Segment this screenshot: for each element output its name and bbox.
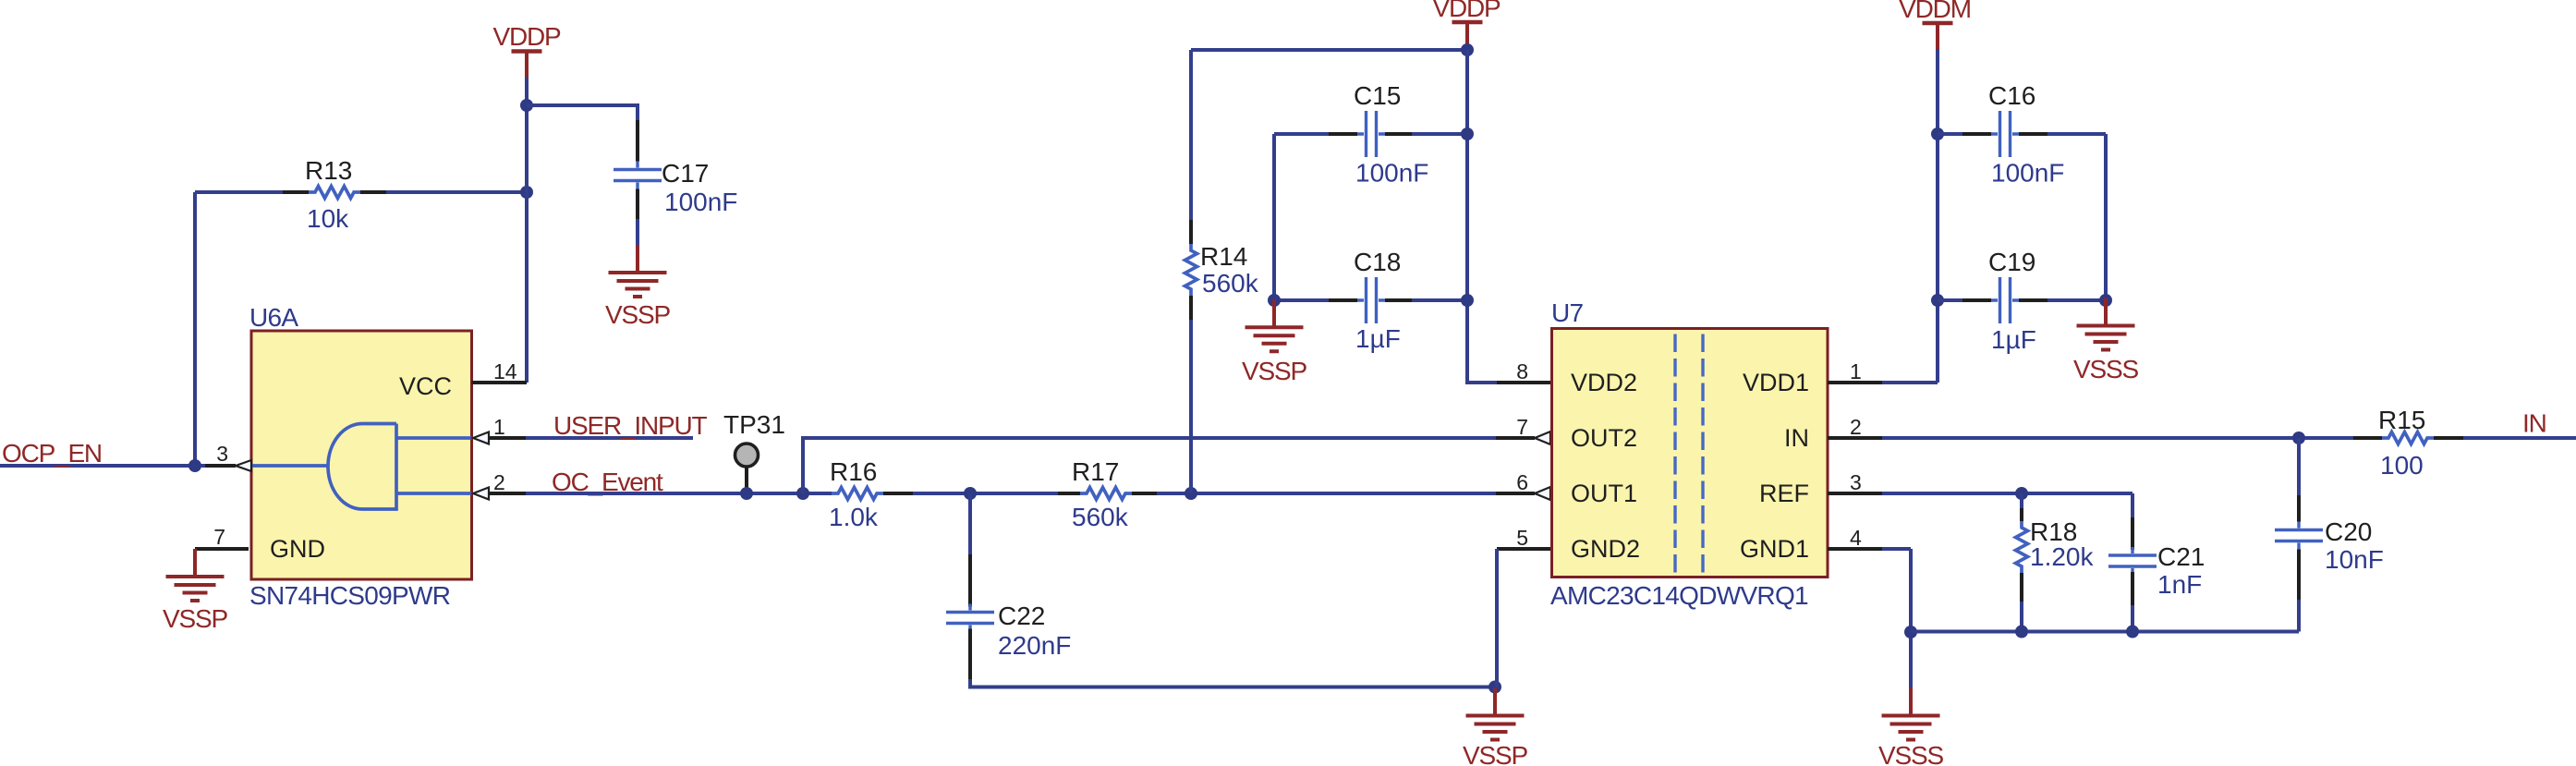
svg-text:TP31: TP31: [723, 410, 785, 439]
wire GND1 rail: [1882, 549, 1911, 688]
junction C16 left: [1931, 128, 1944, 140]
resistor R14: [1185, 244, 1197, 296]
svg-text:560k: 560k: [1072, 503, 1129, 531]
wire C22 to GND2 rail: [970, 679, 1495, 687]
svg-text:100: 100: [2380, 451, 2424, 480]
resistor R15 lead left: [2353, 436, 2382, 440]
pin 2: [473, 470, 526, 500]
svg-text:C17: C17: [662, 159, 709, 188]
junction OUT2 branch: [796, 487, 809, 500]
svg-text:14: 14: [493, 359, 517, 383]
svg-text:OUT2: OUT2: [1571, 424, 1637, 452]
capacitor C16 row: [1938, 132, 1962, 136]
capacitor C21 lead top: [2131, 517, 2134, 550]
resistor R15: [2382, 432, 2434, 444]
wire C17 to ground: [636, 219, 639, 246]
junction R14 bottom: [1185, 487, 1197, 500]
wire OUT2 branch vertical: [803, 438, 1496, 493]
capacitor C21 lead bottom: [2131, 572, 2134, 605]
wire R16 to C22 junction: [913, 492, 1058, 495]
svg-text:GND: GND: [270, 535, 325, 563]
wire OCP_EN to R13 vertical: [193, 192, 197, 466]
svg-text:10nF: 10nF: [2325, 545, 2384, 574]
pin 6 OUT1 stub: [1496, 492, 1535, 495]
ground VSSS (bottom): [1878, 688, 1943, 766]
resistor R15 lead right: [2434, 436, 2463, 440]
ground VSSP (under C17): [605, 245, 670, 329]
svg-text:C18: C18: [1354, 248, 1401, 276]
isolation barrier dashed lines: [1675, 334, 1703, 577]
junction TP31: [740, 487, 753, 500]
resistor R1 lead left (pin): [283, 190, 309, 194]
op-amp U6A AND gate: [251, 424, 472, 510]
capacitor C18: [1357, 277, 1385, 323]
ground VSSP (bottom): [1463, 688, 1527, 766]
capacitor C15: [1357, 111, 1385, 157]
svg-text:100nF: 100nF: [1991, 159, 2064, 188]
svg-text:C22: C22: [998, 602, 1045, 630]
svg-text:1: 1: [493, 415, 505, 439]
junction C19 right / ground: [2099, 294, 2112, 307]
svg-text:VSSS: VSSS: [2073, 355, 2138, 383]
capacitor C16: [1991, 111, 2019, 157]
svg-text:1µF: 1µF: [1355, 324, 1401, 353]
svg-text:R16: R16: [830, 457, 877, 486]
svg-text:USER_INPUT: USER_INPUT: [553, 411, 707, 440]
ground VSSP (C18): [1242, 299, 1306, 385]
capacitor C22 branch wire: [968, 493, 972, 554]
svg-text:3: 3: [216, 442, 228, 466]
pin 7 GND: [195, 525, 325, 563]
svg-text:AMC23C14QDWVRQ1: AMC23C14QDWVRQ1: [1550, 581, 1808, 610]
resistor R14 lead top: [1189, 220, 1193, 244]
svg-text:100nF: 100nF: [1355, 159, 1428, 188]
svg-text:REF: REF: [1759, 480, 1809, 507]
U7 pin numbers right: [1850, 359, 1862, 550]
capacitor C16 lead right: [2019, 132, 2047, 136]
junction VDDP/C17 branch: [520, 99, 533, 112]
junction R18 top: [2015, 487, 2028, 500]
wire VDDM rail: [1936, 50, 1939, 383]
wire R14 top to VDDP: [1191, 48, 1467, 52]
svg-text:GND1: GND1: [1740, 535, 1809, 563]
test point TP31: [723, 410, 785, 493]
svg-text:7: 7: [1516, 415, 1528, 439]
resistor R17 lead right: [1132, 492, 1157, 495]
svg-text:OCP_EN: OCP_EN: [2, 439, 102, 468]
pin 8 VDD2 stub: [1497, 381, 1550, 384]
svg-text:220nF: 220nF: [998, 631, 1071, 660]
svg-text:VDDM: VDDM: [1899, 0, 1971, 23]
capacitor C22 lead top: [968, 554, 972, 607]
resistor R14 rail top: [1189, 50, 1193, 220]
junction C15 right: [1461, 128, 1474, 140]
capacitor C22 lead bottom: [968, 629, 972, 682]
svg-text:2: 2: [1850, 415, 1862, 439]
svg-text:100nF: 100nF: [664, 188, 737, 216]
svg-text:SN74HCS09PWR: SN74HCS09PWR: [249, 581, 450, 610]
svg-text:1: 1: [1850, 359, 1862, 383]
capacitor C20: [2275, 522, 2323, 550]
pin 1: [473, 415, 526, 444]
capacitor C17: [614, 162, 662, 189]
wire C15/C18 left rail: [1272, 134, 1276, 300]
wire VDD1 to VDDM rail: [1882, 381, 1938, 384]
junction C20 top: [2292, 432, 2305, 444]
junction C18 left / ground: [1268, 294, 1281, 307]
capacitor C19 row: [1938, 298, 1962, 302]
svg-text:VDD2: VDD2: [1571, 369, 1637, 396]
wire R17 to OUT1: [1157, 492, 1496, 495]
pin 1 VDD1 stub: [1828, 381, 1882, 384]
wire IN net: [1882, 436, 2353, 440]
svg-text:U7: U7: [1551, 298, 1584, 327]
junction OCP_EN/R13: [188, 459, 201, 472]
wire bottom rail: [1911, 630, 2299, 634]
capacitor C17 lead top (pin): [636, 120, 639, 162]
U7 pin labels right: [1740, 369, 1809, 563]
capacitor C21: [2108, 547, 2157, 575]
pin 14 VCC: [399, 359, 527, 400]
capacitor C22: [946, 604, 994, 632]
svg-text:IN: IN: [1784, 424, 1809, 452]
svg-text:R17: R17: [1072, 457, 1119, 486]
resistor R17 lead left: [1058, 492, 1080, 495]
capacitor C20 lead top: [2297, 495, 2301, 522]
capacitor C18 lead right: [1385, 298, 1412, 302]
capacitor C15 lead right: [1385, 132, 1412, 136]
svg-text:VSSS: VSSS: [1878, 741, 1943, 766]
resistor R14 lead bottom: [1189, 296, 1193, 320]
resistor R18 lead top: [2020, 507, 2023, 521]
svg-text:VCC: VCC: [399, 372, 452, 400]
resistor R16 lead right: [883, 492, 913, 495]
wire R13 right to VDDP rail: [386, 190, 527, 194]
junction C21 bottom: [2126, 626, 2139, 638]
svg-text:6: 6: [1516, 470, 1528, 494]
resistor R13: [309, 187, 360, 199]
pin 3: [205, 442, 251, 471]
svg-text:1µF: 1µF: [1991, 325, 2036, 354]
svg-text:VDDP: VDDP: [493, 22, 562, 51]
resistor R18: [2016, 521, 2028, 573]
resistor R13 lead right (pin): [360, 190, 386, 194]
junction C22: [964, 487, 977, 500]
pin 3 REF stub: [1828, 492, 1882, 495]
pin 7 OUT2 stub: [1496, 436, 1535, 440]
svg-text:VSSP: VSSP: [605, 300, 670, 329]
wire R15 to IN: [2463, 436, 2576, 440]
svg-text:VDDP: VDDP: [1433, 0, 1501, 22]
wire C21 bottom: [2131, 605, 2134, 632]
svg-text:IN: IN: [2522, 409, 2546, 438]
IC U6A box: [251, 331, 472, 579]
svg-text:560k: 560k: [1202, 269, 1259, 298]
junction GND2 ground: [1488, 681, 1501, 694]
pin 4 GND1 stub: [1828, 547, 1882, 551]
svg-text:C21: C21: [2157, 542, 2205, 571]
junction R18 bottom: [2015, 626, 2028, 638]
svg-text:1nF: 1nF: [2157, 570, 2202, 599]
svg-text:5: 5: [1516, 526, 1528, 550]
svg-text:VSSP: VSSP: [163, 604, 227, 633]
svg-text:7: 7: [213, 525, 225, 549]
wire C20 rail: [2297, 438, 2301, 632]
U7 pin labels left: [1571, 369, 1640, 563]
wire R14 bottom: [1189, 320, 1193, 493]
capacitor C19 lead right: [2019, 298, 2047, 302]
wire R18 top: [2020, 493, 2023, 508]
wire OCP_EN horizontal: [0, 464, 205, 468]
IC U7 box: [1552, 329, 1829, 578]
svg-text:1.0k: 1.0k: [829, 503, 879, 531]
ground VSSS (C19): [2073, 298, 2138, 384]
wire USER_INPUT: [489, 436, 526, 440]
resistor R18 lead bottom: [2020, 573, 2023, 602]
power VDDP (left): [493, 22, 562, 78]
svg-text:GND2: GND2: [1571, 535, 1640, 563]
svg-text:3: 3: [1850, 470, 1862, 494]
svg-text:1.20k: 1.20k: [2030, 542, 2094, 571]
pin 2 IN stub: [1828, 436, 1882, 440]
svg-text:OUT1: OUT1: [1571, 480, 1637, 507]
wire C17 branch horizontal: [527, 103, 638, 120]
svg-text:U6A: U6A: [249, 303, 298, 332]
svg-text:VSSP: VSSP: [1463, 741, 1527, 766]
svg-text:VDD1: VDD1: [1743, 369, 1809, 396]
junction C18 right: [1461, 294, 1474, 307]
wire REF net: [1882, 493, 2132, 517]
junction C19 left: [1931, 294, 1944, 307]
capacitor C18 row: [1274, 298, 1329, 302]
U7 pin numbers left: [1516, 359, 1528, 550]
svg-text:4: 4: [1850, 526, 1862, 550]
svg-text:R13: R13: [305, 156, 352, 185]
junction R13/VDDP rail: [520, 186, 533, 199]
power VDDP (middle): [1433, 0, 1501, 50]
wire GND2 rail: [1495, 549, 1499, 687]
svg-text:C20: C20: [2325, 517, 2372, 546]
resistor R17: [1080, 488, 1132, 500]
svg-text:8: 8: [1516, 359, 1528, 383]
junction GND1 rail: [1904, 626, 1917, 638]
svg-text:C16: C16: [1988, 81, 2035, 110]
wire C16/C19 right rail: [2104, 134, 2108, 300]
svg-text:10k: 10k: [307, 204, 349, 233]
wire R18 bottom: [2020, 602, 2023, 632]
svg-text:2: 2: [493, 470, 505, 494]
power VDDM: [1899, 0, 1971, 50]
wire VDDP mid rail: [1467, 50, 1497, 383]
capacitor C17 lead bottom (pin): [636, 189, 639, 220]
svg-text:C15: C15: [1354, 81, 1401, 110]
wire OC_Event: [489, 492, 526, 495]
pin 5 GND2 stub: [1497, 547, 1550, 551]
svg-text:C19: C19: [1988, 248, 2035, 276]
svg-text:VSSP: VSSP: [1242, 357, 1306, 385]
capacitor C20 lead bottom: [2297, 550, 2301, 601]
svg-text:R15: R15: [2378, 406, 2425, 434]
wire R13 left: [195, 190, 283, 194]
resistor R16: [832, 488, 883, 500]
capacitor C15 row: [1274, 132, 1329, 136]
junction VDDP mid: [1461, 43, 1474, 56]
capacitor C19: [1991, 277, 2019, 323]
wire VDDP rail vertical: [525, 78, 529, 383]
ground VSSP (pin 7): [163, 549, 227, 633]
svg-text:R14: R14: [1200, 242, 1247, 271]
